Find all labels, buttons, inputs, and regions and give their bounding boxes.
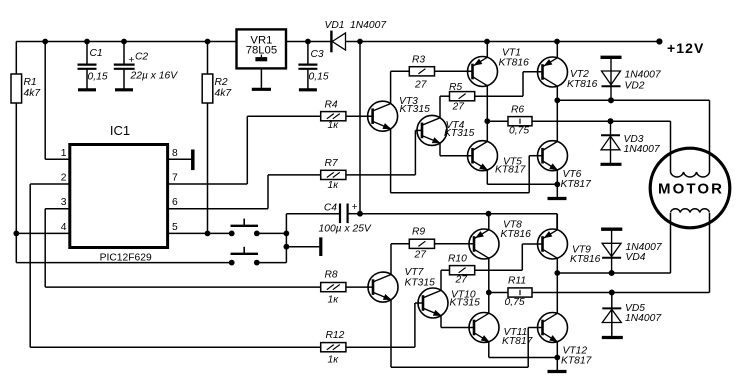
wire R3 to VT1 base (435, 70, 473, 72)
motor M1 (650, 148, 730, 228)
wire pin7 to R4 (247, 116, 320, 184)
wire R5 to VT2 base (475, 72, 543, 96)
ground VT5 VT6 (548, 197, 567, 200)
svg-text:VD4: VD4 (626, 252, 646, 263)
ground C1 (78, 88, 96, 91)
wire VT1 emitter (486, 42, 488, 58)
wire VT2 emitter (556, 42, 558, 58)
ground C2 (115, 88, 133, 91)
svg-text:1к: 1к (328, 355, 340, 366)
svg-text:3: 3 (61, 197, 67, 208)
resistor R7 (321, 158, 346, 191)
svg-text:1к: 1к (328, 180, 340, 191)
svg-text:+: + (352, 202, 358, 213)
pin 5 (168, 222, 232, 236)
svg-text:KT315: KT315 (450, 298, 481, 309)
svg-text:IC1: IC1 (110, 123, 130, 138)
svg-text:R7: R7 (325, 158, 339, 169)
wire node B to motor bottom left (557, 213, 670, 276)
svg-text:100µ x 25V: 100µ x 25V (319, 224, 372, 235)
IC U1 PIC12F629 body (70, 123, 168, 263)
svg-text:VD1: VD1 (325, 20, 345, 31)
resistor R5 (449, 82, 475, 113)
wire VR1 ground lead (260, 68, 262, 89)
pin 8 (168, 148, 193, 160)
svg-text:R9: R9 (412, 227, 425, 238)
svg-text:4: 4 (61, 222, 67, 233)
svg-text:KT816: KT816 (570, 254, 601, 265)
transistor VT6 (538, 141, 593, 190)
svg-text:27: 27 (414, 80, 428, 91)
wire pin2 to R12 (30, 184, 321, 347)
diode VD1 (325, 20, 388, 52)
resistor R12 (321, 330, 346, 366)
ground VR1 (252, 88, 271, 91)
svg-text:R8: R8 (325, 270, 338, 281)
svg-text:KT817: KT817 (495, 165, 527, 176)
svg-text:KT315: KT315 (405, 278, 436, 289)
transistor VT9 (538, 229, 601, 265)
svg-text:7: 7 (172, 173, 178, 184)
svg-text:+: + (128, 55, 134, 66)
wire VT7 collector to R9 (391, 244, 409, 275)
wire VT3 collector to R3 (391, 71, 410, 104)
svg-text:1N4007: 1N4007 (624, 144, 661, 155)
svg-text:6: 6 (172, 197, 178, 208)
svg-text:2: 2 (61, 173, 67, 184)
svg-text:R12: R12 (326, 330, 345, 341)
wire VT5 emitter (487, 170, 557, 184)
capacitor C1 (78, 42, 108, 90)
svg-text:KT817: KT817 (561, 356, 593, 367)
wire node X to R6 (487, 120, 508, 122)
pin 6 (168, 197, 268, 209)
svg-text:5: 5 (172, 222, 178, 233)
wire +12V drop (359, 42, 361, 214)
transistor VT5 (468, 141, 527, 176)
wire R11 to motor bottom right (532, 213, 710, 295)
transistor VT4 (417, 115, 475, 145)
diode VD3 (601, 118, 661, 163)
transistor VT10 (418, 288, 480, 318)
svg-text:1N4007: 1N4007 (625, 70, 662, 81)
wire VT12 emitter to ground (554, 342, 560, 372)
wire VT4 collector to R5 (440, 96, 450, 118)
node top-rail junction dots (42, 39, 560, 45)
svg-text:VT7: VT7 (405, 267, 425, 278)
ground VT11 VT12 (548, 370, 567, 373)
voltage regulator VR1 (237, 29, 287, 68)
svg-text:KT816: KT816 (501, 229, 532, 240)
capacitor C2 (114, 42, 178, 90)
wire pin3 to R8 (45, 209, 321, 287)
wire VT1 collector (484, 86, 490, 142)
diode VD5 (602, 290, 662, 336)
wire +5V/+12V top rail (16, 41, 659, 43)
svg-text:0,75: 0,75 (505, 297, 525, 308)
transistor VT1 (468, 48, 530, 87)
wire node Y to R11 (489, 292, 508, 294)
resistor R8 (321, 270, 346, 306)
svg-text:R11: R11 (508, 276, 526, 287)
diode VD2 (601, 57, 662, 103)
wire R7 to VT4 base (346, 130, 422, 175)
wire R10 to VT9 base (475, 244, 543, 270)
svg-text:1: 1 (61, 148, 67, 159)
pin 4 (13, 222, 69, 236)
resistor R9 (409, 227, 434, 261)
wire R9 to VT8 base (435, 243, 475, 245)
transistor VT2 (538, 57, 598, 90)
ground VD5 (602, 336, 623, 339)
svg-text:R3: R3 (412, 55, 425, 66)
resistor R4 (321, 100, 346, 132)
ground pin 8 bar (191, 150, 195, 171)
transistor VT7 (368, 267, 435, 302)
ground C3 (299, 88, 317, 91)
wire VT6 emitter to ground (554, 170, 560, 199)
transistor VT11 (469, 313, 534, 348)
ground VD3 (601, 163, 622, 166)
svg-text:KT315: KT315 (444, 128, 475, 139)
pin 2 (30, 173, 70, 185)
capacitor C3 (298, 42, 328, 90)
svg-text:27: 27 (455, 275, 469, 286)
svg-text:1к: 1к (328, 295, 340, 306)
svg-text:27: 27 (452, 102, 466, 113)
wire VT7 emitter to VT12 base (391, 300, 543, 368)
wire R4 to VT3 base (346, 115, 373, 117)
svg-text:R1: R1 (24, 77, 37, 88)
svg-text:C4: C4 (324, 203, 337, 214)
svg-text:1к: 1к (328, 120, 340, 131)
transistor VT12 (538, 313, 593, 367)
wire VT4 emitter to VT5 base (440, 143, 473, 156)
svg-text:KT816: KT816 (499, 58, 530, 69)
wire R8 to VT7 base (346, 286, 373, 288)
svg-text:VD2: VD2 (625, 81, 645, 92)
svg-text:MOTOR: MOTOR (658, 180, 724, 197)
diode VD4 (601, 229, 663, 276)
svg-text:C3: C3 (311, 49, 324, 60)
svg-text:0,15: 0,15 (309, 72, 329, 83)
resistor R1 (11, 42, 41, 263)
wire VT10 emitter to VT11 base (441, 316, 474, 328)
push-button SB1 (229, 219, 260, 237)
wire VT11 emitter (489, 342, 558, 358)
wire R12 to VT10 base (346, 303, 423, 347)
wire VT3 emitter to VT6 base (391, 129, 543, 193)
resistor R2 (202, 42, 232, 234)
wire pin6 to R7 (268, 175, 321, 209)
svg-text:KT816: KT816 (567, 79, 598, 90)
wire VT9 emitter (556, 214, 558, 230)
svg-text:R10: R10 (448, 254, 467, 265)
ground stub bar (319, 237, 322, 256)
wire gnd column (284, 214, 290, 263)
wire R6 to motor left (532, 118, 671, 172)
resistor R10 (448, 254, 475, 286)
svg-text:+12V: +12V (667, 40, 705, 56)
svg-text:27: 27 (414, 250, 428, 261)
svg-text:22µ x 16V: 22µ x 16V (130, 71, 179, 82)
transistor VT8 (469, 220, 531, 260)
wire VT10 collector to R10 (441, 270, 450, 290)
resistor R6 (508, 105, 532, 137)
resistor R11 (505, 276, 533, 309)
svg-text:R4: R4 (325, 100, 338, 111)
svg-text:R5: R5 (449, 82, 462, 93)
capacitor C4 (286, 202, 372, 235)
wire VT8 emitter (488, 214, 490, 230)
resistor R3 (409, 55, 434, 91)
svg-text:8: 8 (172, 148, 178, 159)
node C4 plus junction (357, 211, 363, 217)
transistor VT3 (368, 96, 431, 131)
wire gnd stub (286, 246, 319, 248)
svg-text:4k7: 4k7 (24, 88, 42, 99)
push-button SB2 (229, 247, 260, 266)
svg-text:R6: R6 (511, 105, 524, 116)
pin 3 (45, 197, 70, 209)
svg-text:C1: C1 (90, 48, 103, 59)
wire VT8 collector (486, 258, 492, 313)
svg-text:R2: R2 (215, 77, 228, 88)
wire lower bridge feed (360, 211, 557, 230)
svg-text:C2: C2 (135, 52, 148, 63)
wire VT9 collector (554, 258, 560, 313)
svg-text:KT817: KT817 (561, 179, 593, 190)
svg-text:0,15: 0,15 (88, 72, 108, 83)
svg-text:0,75: 0,75 (509, 126, 529, 137)
pin 1 (45, 42, 70, 160)
wire pin4 net to SB2 (16, 262, 231, 264)
svg-text:4k7: 4k7 (215, 88, 233, 99)
wire node A to motor right (557, 97, 709, 172)
svg-text:1N4007: 1N4007 (625, 313, 662, 324)
wire VT2 collector (554, 86, 560, 141)
svg-text:1N4007: 1N4007 (350, 20, 387, 31)
node +12V terminal (656, 38, 704, 56)
wire SB2 to gnd column (257, 262, 287, 264)
wire SB1 to gnd column (257, 232, 287, 234)
pin 7 (168, 173, 248, 185)
svg-text:KT315: KT315 (400, 104, 431, 115)
